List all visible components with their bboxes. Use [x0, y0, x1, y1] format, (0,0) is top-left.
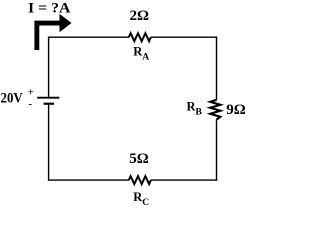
- svg-text:RA: RA: [133, 45, 149, 63]
- resistor RA: [129, 33, 151, 41]
- svg-text:I = ?A: I = ?A: [28, 1, 71, 17]
- wire top-right: [151, 36, 217, 38]
- wire left-upper: [48, 37, 50, 97]
- wire top-left: [48, 36, 129, 38]
- svg-text:5Ω: 5Ω: [129, 151, 149, 167]
- wire bottom-left: [48, 179, 129, 181]
- svg-text:RC: RC: [133, 190, 149, 205]
- resistor RB: [210, 100, 220, 120]
- battery plate positive: [37, 97, 59, 99]
- battery plate negative: [44, 103, 54, 105]
- svg-text:-: -: [29, 99, 33, 110]
- svg-text:2Ω: 2Ω: [129, 8, 149, 24]
- svg-text:9Ω: 9Ω: [226, 102, 246, 118]
- wire right-lower: [216, 120, 218, 181]
- svg-text:+: +: [28, 88, 34, 99]
- wire bottom-right: [151, 179, 217, 181]
- current arrow: [34, 14, 71, 50]
- svg-text:20V: 20V: [1, 91, 23, 107]
- wire left-lower: [48, 104, 50, 181]
- resistor RC: [129, 176, 151, 184]
- svg-text:RB: RB: [187, 100, 203, 118]
- wire right-upper: [216, 37, 218, 100]
